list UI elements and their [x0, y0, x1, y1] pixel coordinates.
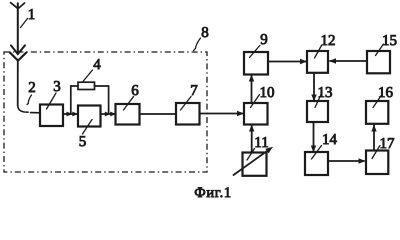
wire 2 to block 3	[31, 112, 41, 114]
wire 17 to 16	[373, 125, 375, 151]
label 7	[181, 82, 198, 110]
element 2 hook	[18, 106, 28, 113]
block 3	[40, 105, 63, 127]
label 3	[47, 78, 61, 109]
label 12	[315, 32, 336, 58]
block 11	[243, 153, 267, 176]
arrowhead into block 13	[311, 95, 316, 102]
wire 7 to 10	[200, 113, 244, 115]
feedback loop wire right	[95, 86, 109, 114]
block 7	[176, 103, 200, 125]
block 14	[305, 152, 328, 175]
svg-text:16: 16	[378, 84, 393, 101]
svg-text:5: 5	[79, 133, 87, 150]
arrowhead into block 9	[249, 75, 254, 82]
label 15	[376, 32, 398, 56]
svg-text:9: 9	[260, 31, 268, 48]
svg-text:8: 8	[201, 24, 209, 41]
svg-text:13: 13	[318, 84, 333, 101]
svg-text:6: 6	[131, 82, 139, 99]
block 9	[244, 52, 268, 75]
block 17	[366, 151, 388, 175]
label 4	[83, 56, 101, 82]
label 8	[194, 24, 209, 51]
label 2	[27, 79, 36, 105]
arrowhead into block 12	[300, 59, 307, 64]
svg-text:3: 3	[53, 78, 61, 95]
arrowhead into block 5	[72, 112, 78, 117]
block 10	[244, 103, 268, 125]
wire 15 to 12	[330, 60, 367, 62]
label 9	[250, 31, 268, 58]
wire 9 to 12	[268, 61, 306, 63]
label 6	[124, 82, 139, 110]
svg-text:10: 10	[260, 84, 275, 101]
wire 3 to 5	[63, 113, 78, 115]
block 5	[78, 106, 101, 127]
wire 5 to 6	[101, 113, 116, 115]
label 11	[247, 134, 269, 160]
arrowhead into block 6	[110, 112, 116, 117]
wire 13 to 14	[313, 122, 315, 151]
svg-text:1: 1	[28, 6, 36, 23]
svg-text:15: 15	[382, 32, 397, 49]
svg-text:4: 4	[93, 56, 101, 73]
label 1	[21, 6, 36, 28]
arrowhead into block 10	[249, 125, 254, 132]
wire 12 to 13	[313, 73, 315, 100]
svg-text:Фиг.1: Фиг.1	[194, 185, 231, 201]
arrowhead into junction	[105, 112, 111, 117]
label 14	[312, 131, 338, 159]
block 6	[116, 104, 140, 125]
wire antenna feed	[17, 61, 19, 106]
label 13	[315, 84, 333, 108]
arrowhead into junction	[67, 112, 73, 117]
block 13	[307, 101, 328, 122]
svg-text:17: 17	[380, 135, 395, 152]
arrowhead into block 17	[359, 158, 366, 163]
wire 11 to 10	[251, 125, 253, 153]
feedback loop wire left	[71, 86, 78, 114]
antenna A1	[10, 3, 26, 61]
svg-text:2: 2	[28, 79, 36, 96]
svg-text:7: 7	[190, 82, 198, 99]
resistor box 4	[78, 82, 95, 89]
label 16	[373, 84, 393, 108]
wire 14 to 17	[328, 160, 364, 162]
variable arrow on block 11	[234, 147, 274, 175]
svg-text:11: 11	[254, 134, 268, 151]
block 16	[366, 101, 388, 124]
wire 6 to 7	[140, 113, 177, 115]
arrowhead into block 10	[237, 111, 244, 116]
arrowhead into block 12 right	[329, 58, 336, 63]
label 5	[79, 120, 92, 150]
arrowhead into block 14	[311, 146, 316, 153]
wire 10 to 9	[251, 75, 253, 103]
label 17	[372, 135, 395, 159]
block 15	[367, 51, 390, 73]
label 10	[251, 84, 275, 108]
dashed box 8	[4, 52, 207, 172]
arrowhead into block 16	[371, 125, 376, 132]
block 12	[307, 51, 328, 73]
svg-text:12: 12	[321, 32, 336, 49]
svg-text:14: 14	[322, 131, 337, 148]
